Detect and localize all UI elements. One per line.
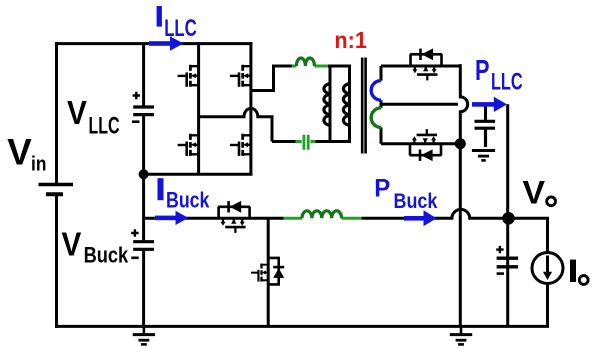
wire secondary center tap (381, 103, 458, 106)
wire secondary top (381, 65, 460, 68)
arrow ILLC (149, 36, 184, 50)
wire tank bottom right section (315, 140, 351, 143)
ground main right (450, 326, 472, 344)
battery Vin (39, 185, 74, 195)
transformer core (362, 58, 365, 154)
transformer primary winding (343, 66, 350, 142)
diode loop buck low-side (268, 258, 284, 285)
transistor bridge top-left (178, 65, 199, 87)
wire buck input branch (144, 217, 284, 220)
svg-text:P: P (374, 174, 390, 202)
label Io (570, 260, 588, 285)
node Vo junction (502, 212, 515, 225)
svg-text:V: V (62, 226, 82, 263)
label PBuck (374, 174, 437, 213)
minus sign output cap (497, 272, 504, 275)
plus sign VLLC (133, 92, 140, 99)
label ILLC (157, 6, 197, 42)
transistor SR top (410, 48, 442, 80)
wire right-leg midpoint to tank top (251, 66, 292, 91)
transistor SR bottom (flipped) (410, 129, 442, 161)
wire sr return vertical with hop over center tap (460, 64, 467, 326)
label IBuck (158, 178, 211, 212)
wire left input vertical bottom (55, 195, 58, 328)
ground main left (133, 326, 155, 344)
capacitor output (497, 258, 518, 267)
transistor bridge top-right (230, 65, 251, 87)
svg-text:LLC: LLC (491, 69, 523, 96)
transistor bridge bottom-right (230, 134, 251, 156)
minus sign VLLC (132, 120, 139, 123)
capacitor VBuck (133, 242, 154, 250)
label Vo (523, 175, 556, 211)
inductor resonant Lr (green) (292, 58, 328, 66)
wire center capacitor branch lower (142, 251, 145, 328)
transformer secondary winding (blue+green arcs) (371, 66, 381, 144)
wire top rail (55, 42, 253, 45)
node mid capacitor junction (139, 169, 149, 179)
svg-text:P: P (475, 55, 490, 87)
wire bridge right leg (249, 42, 252, 174)
svg-text:V: V (67, 94, 87, 131)
plus sign VBuck (131, 229, 138, 236)
minus sign VBuck (131, 256, 138, 259)
label Vin (7, 132, 46, 176)
wire llc output vertical (506, 104, 509, 326)
wire output node to current source (508, 218, 548, 252)
svg-text:LLC: LLC (89, 113, 120, 140)
wire left input vertical top (55, 42, 58, 183)
wire llc output cap stem (484, 106, 487, 120)
label PLLC (475, 55, 523, 95)
transistor bridge bottom-left (178, 134, 199, 156)
inductor buck (green) (284, 211, 362, 219)
ground llc local (472, 151, 495, 161)
wire tank top section after resonant inductor (328, 65, 351, 68)
label VBuck (62, 226, 129, 268)
wire bottom ground rail (55, 325, 549, 328)
svg-text:Buck: Buck (84, 243, 129, 268)
capacitor llc output (475, 121, 496, 147)
wire buck switch node vertical (267, 218, 270, 326)
svg-text:n:1: n:1 (334, 27, 367, 53)
wire center capacitor branch upper (142, 44, 145, 106)
arrow IBuck (155, 211, 188, 225)
capacitor resonant Cr (green) (296, 135, 316, 150)
node sr return junction (455, 138, 466, 149)
transistor buck high-side (218, 201, 250, 233)
wire tank bottom left section (272, 140, 296, 143)
current source Io (532, 253, 563, 284)
svg-text:LLC: LLC (164, 15, 197, 42)
wire left-leg midpoint with hop over right leg (199, 108, 272, 141)
plus sign output cap (496, 246, 503, 253)
svg-text:V: V (523, 175, 546, 211)
wire bridge left leg (197, 42, 200, 174)
wire secondary bottom (381, 142, 460, 145)
arrow PBuck (404, 210, 437, 226)
arrow PLLC (472, 97, 507, 112)
wire buck output with hop over sr return (361, 209, 507, 218)
svg-text:Buck: Buck (394, 190, 438, 213)
svg-text:Buck: Buck (166, 187, 210, 212)
wire center capacitor branch middle (142, 116, 145, 240)
wire bridge bottom rail (144, 173, 253, 176)
capacitor VLLC (133, 107, 154, 115)
svg-text:in: in (31, 154, 46, 176)
inductor magnetizing Lm (324, 66, 331, 142)
transistor buck low-side (251, 263, 268, 281)
label VLLC (67, 94, 120, 139)
svg-text:V: V (7, 132, 32, 173)
wire current source bottom (546, 284, 549, 328)
